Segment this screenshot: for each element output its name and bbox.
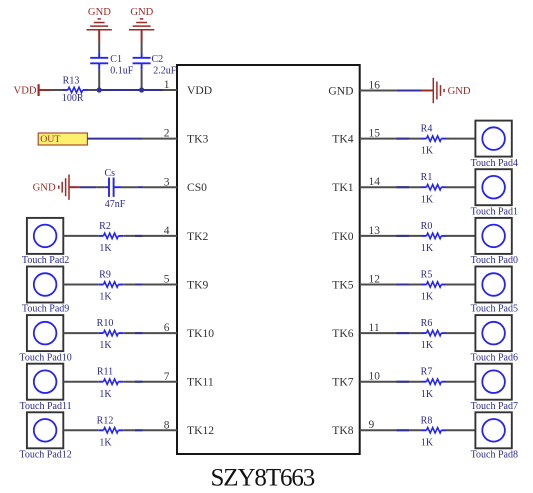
svg-text:R8: R8 [421,415,433,426]
wire pin 12 to R5 [360,284,422,286]
wire pin 14 to R1 [360,186,422,188]
svg-text:R13: R13 [63,76,80,87]
svg-text:2: 2 [164,128,170,140]
wire pin 11 to R6 [360,332,422,334]
resistor R9 [99,282,123,287]
wire C1 to node A [98,69,100,90]
wire Touch Pad2 to R2 [63,235,98,237]
capacitor Cs [105,178,121,197]
touch pad Touch Pad7 [475,364,511,400]
wire R13 to node A [88,89,100,91]
wire GND to Cs [80,186,105,188]
wire Cs to pin 3 [121,186,177,188]
svg-text:GND: GND [130,7,153,18]
svg-text:R4: R4 [421,124,433,135]
capacitor C1 [90,52,108,69]
svg-text:TK2: TK2 [187,230,208,243]
svg-text:TK8: TK8 [332,424,353,437]
wire R5 to Touch Pad5 [446,284,476,286]
wire pin 9 to R8 [360,429,422,431]
svg-text:1K: 1K [421,194,434,205]
touch pad Touch Pad11 [27,364,63,400]
svg-text:R9: R9 [99,270,111,281]
svg-text:CS0: CS0 [187,181,207,194]
svg-text:Touch Pad0: Touch Pad0 [471,255,518,266]
svg-text:1K: 1K [421,146,434,157]
wire R12 to pin 8 [123,429,177,431]
power ground GND (above C1) [87,7,112,42]
wire OUT to pin 2 [87,138,177,140]
svg-text:TK6: TK6 [332,327,353,340]
svg-text:R5: R5 [421,270,433,281]
wire R11 to pin 7 [123,381,177,383]
svg-text:TK11: TK11 [187,376,214,389]
resistor R0 [422,233,446,238]
svg-text:TK12: TK12 [187,424,214,437]
svg-text:GND: GND [328,84,353,97]
capacitor C2 [133,52,151,69]
svg-text:GND: GND [88,7,111,18]
svg-text:Touch Pad1: Touch Pad1 [471,206,518,217]
junction node A [97,87,102,92]
svg-text:Touch Pad7: Touch Pad7 [471,401,518,412]
svg-text:Touch Pad9: Touch Pad9 [22,304,69,315]
svg-text:Touch Pad12: Touch Pad12 [19,450,71,461]
touch pad Touch Pad1 [475,169,511,205]
svg-text:2.2uF: 2.2uF [153,66,177,77]
svg-text:0.1uF: 0.1uF [110,66,134,77]
svg-text:1: 1 [164,79,170,91]
svg-text:R11: R11 [97,367,113,378]
svg-text:Touch Pad8: Touch Pad8 [471,450,518,461]
svg-text:1K: 1K [99,292,112,303]
svg-text:VDD: VDD [14,85,37,96]
wire Touch Pad11 to R11 [63,381,98,383]
svg-text:1K: 1K [421,292,434,303]
svg-text:TK10: TK10 [187,327,214,340]
svg-text:TK0: TK0 [332,230,353,243]
wire VDD port to R13 [51,89,64,91]
svg-text:GND: GND [448,86,471,97]
wire Touch Pad9 to R9 [63,284,98,286]
touch pad Touch Pad5 [475,267,511,303]
wire pin 10 to R7 [360,381,422,383]
touch pad Touch Pad8 [475,412,511,448]
touch pad Touch Pad2 [27,218,63,254]
wire node A to pin 1 [99,89,177,91]
IC U1 SZY8T663 body [177,65,360,454]
touch pad Touch Pad9 [27,267,63,303]
svg-text:1K: 1K [421,389,434,400]
svg-text:R12: R12 [97,415,114,426]
svg-text:TK5: TK5 [332,278,353,291]
wire Touch Pad12 to R12 [63,429,98,431]
touch pad Touch Pad6 [475,315,511,351]
wire R1 to Touch Pad1 [446,186,476,188]
svg-text:5: 5 [164,274,170,286]
junction node B [139,87,144,92]
svg-text:TK4: TK4 [332,133,353,146]
touch pad Touch Pad0 [475,218,511,254]
wire pin 16 to GND [360,90,421,92]
svg-text:8: 8 [164,419,170,431]
svg-text:Touch Pad11: Touch Pad11 [20,401,72,412]
resistor R7 [422,379,446,384]
resistor R5 [422,282,446,287]
resistor R11 [99,379,123,384]
svg-text:R6: R6 [421,318,433,329]
svg-text:6: 6 [164,322,170,334]
wire pin 15 to R4 [360,138,422,140]
svg-text:TK7: TK7 [332,376,353,389]
resistor R2 [99,233,123,238]
svg-text:VDD: VDD [187,84,212,97]
resistor R8 [422,428,446,433]
wire GND to C1 [98,42,100,52]
svg-text:TK1: TK1 [332,181,353,194]
svg-text:Touch Pad10: Touch Pad10 [19,352,71,363]
svg-text:GND: GND [33,183,56,194]
wire R2 to pin 4 [123,235,177,237]
svg-text:47nF: 47nF [105,199,126,210]
svg-text:R2: R2 [99,221,111,232]
resistor R4 [422,136,446,141]
svg-text:4: 4 [164,225,170,237]
resistor R13 [63,87,87,92]
svg-text:R0: R0 [421,221,433,232]
svg-text:1K: 1K [99,340,112,351]
svg-text:SZY8T663: SZY8T663 [211,465,315,492]
svg-text:3: 3 [164,176,170,188]
svg-text:1K: 1K [99,243,112,254]
wire pin 13 to R0 [360,235,422,237]
resistor R6 [422,330,446,335]
svg-text:R1: R1 [421,172,433,183]
wire GND to C2 [141,42,143,52]
svg-text:Cs: Cs [105,168,116,179]
wire Touch Pad10 to R10 [63,332,98,334]
wire R4 to Touch Pad4 [446,138,476,140]
resistor R1 [422,185,446,190]
resistor R12 [99,428,123,433]
svg-text:C2: C2 [152,54,164,65]
touch pad Touch Pad12 [27,412,63,448]
wire R8 to Touch Pad8 [446,429,476,431]
svg-text:TK9: TK9 [187,278,208,291]
svg-text:Touch Pad2: Touch Pad2 [22,255,69,266]
svg-text:Touch Pad4: Touch Pad4 [471,158,518,169]
svg-text:TK3: TK3 [187,133,208,146]
power ground GND (above C2) [129,7,154,42]
svg-text:7: 7 [164,371,170,383]
svg-text:Touch Pad5: Touch Pad5 [471,304,518,315]
svg-text:R10: R10 [97,318,114,329]
power ground GND (left of Cs) [33,175,80,200]
svg-text:100R: 100R [62,93,84,104]
wire R0 to Touch Pad0 [446,235,476,237]
svg-text:1K: 1K [99,389,112,400]
wire R9 to pin 5 [123,284,177,286]
svg-text:R7: R7 [421,367,433,378]
wire R6 to Touch Pad6 [446,332,476,334]
port OUT [38,133,87,145]
svg-text:C1: C1 [110,54,122,65]
svg-text:OUT: OUT [40,134,60,145]
svg-text:1K: 1K [421,437,434,448]
svg-text:Touch Pad6: Touch Pad6 [471,352,518,363]
wire R10 to pin 6 [123,332,177,334]
touch pad Touch Pad10 [27,315,63,351]
touch pad Touch Pad4 [475,121,511,157]
svg-text:1K: 1K [99,437,112,448]
power ground GND (pin 16) [421,78,471,103]
power port VDD [14,84,51,96]
wire C2 to node B [141,69,143,90]
resistor R10 [99,330,123,335]
wire R7 to Touch Pad7 [446,381,476,383]
svg-text:1K: 1K [421,340,434,351]
svg-text:1K: 1K [421,243,434,254]
